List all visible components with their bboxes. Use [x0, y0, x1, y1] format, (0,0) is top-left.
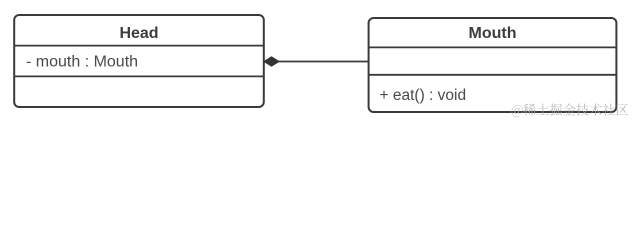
Head title/attribute divider [14, 45, 264, 47]
Mouth title/attribute divider [369, 46, 617, 48]
Mouth method: + eat() : void [380, 87, 467, 104]
composition diamond at Head side [264, 57, 279, 66]
wire: composition link Head-Mouth [276, 61, 369, 63]
svg-text:Mouth: Mouth [469, 25, 517, 42]
Head class name label [119, 25, 158, 42]
Mouth class name label [469, 25, 517, 42]
Head attribute/method divider [14, 75, 264, 77]
watermark @juejin community [512, 103, 629, 116]
svg-text:+ eat() : void: + eat() : void [380, 87, 467, 104]
svg-text:Head: Head [119, 25, 158, 42]
svg-text:- mouth : Mouth: - mouth : Mouth [26, 54, 138, 71]
class Mouth box [369, 18, 617, 112]
Mouth attribute/method divider [369, 74, 617, 76]
class Head box [14, 15, 264, 107]
Head attribute: - mouth : Mouth [26, 54, 138, 71]
